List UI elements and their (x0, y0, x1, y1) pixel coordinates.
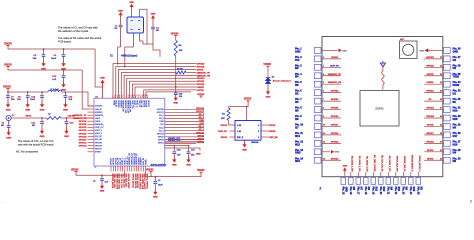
svg-text:GPIO35: GPIO35 (79, 124, 88, 126)
svg-text:GPIO23: GPIO23 (197, 64, 206, 66)
LED D1 (266, 78, 271, 84)
svg-text:(Power indicator): (Power indicator) (273, 79, 291, 82)
antenna connector J1 (6, 115, 11, 120)
svg-text:VDD3P3_CPU: VDD3P3_CPU (168, 140, 181, 142)
svg-text:GPIO2: GPIO2 (158, 136, 164, 138)
wire bottom rail left (76, 172, 125, 176)
svg-text:SENSOR_VP: SENSOR_VP (122, 100, 124, 112)
wire bus line 10 (144, 90, 196, 98)
module bottom pin 25 net wire (417, 172, 419, 177)
svg-text:GPIO34: GPIO34 (79, 120, 88, 123)
svg-text:GND: GND (335, 152, 340, 154)
svg-text:CHIP_PU: CHIP_PU (131, 100, 133, 109)
ground below C3 (154, 190, 156, 192)
wire bus line 8 (132, 84, 196, 98)
svg-text:GND: GND (153, 196, 158, 198)
svg-text:GND: GND (295, 50, 301, 53)
svg-text:CHIP_PU: CHIP_PU (330, 65, 340, 67)
module pin 25 net wire (424, 159, 443, 161)
svg-text:GND: GND (151, 14, 156, 16)
module inner chip box ESP32 (360, 91, 399, 127)
capacitor C13 (41, 92, 43, 95)
module bottom pin 21 box (386, 178, 391, 185)
capacitor C14 (64, 92, 66, 95)
svg-text:GPIO32: GPIO32 (79, 127, 88, 129)
svg-text:GPIO25: GPIO25 (79, 133, 88, 135)
svg-text:GPIO22: GPIO22 (197, 84, 206, 86)
svg-text:GPIO4: GPIO4 (158, 143, 164, 145)
module bottom pin 21 net wire (387, 172, 389, 177)
module pin 28 net wire (424, 134, 443, 136)
svg-text:The value of R4 varies with th: The value of R4 varies with the actual (58, 36, 102, 40)
ground below C9 (8, 130, 10, 132)
module pin 38 box (444, 48, 451, 54)
svg-text:I014: I014 (295, 135, 300, 138)
svg-text:GPIO26: GPIO26 (331, 116, 339, 118)
svg-text:GPIO15: GPIO15 (196, 132, 205, 134)
svg-text:VDD3P3: VDD3P3 (119, 100, 121, 107)
module pin 27 box (444, 140, 451, 146)
svg-text:GPIO27: GPIO27 (95, 148, 102, 150)
module pin 35 box (444, 73, 451, 79)
svg-text:NC: No component: NC: No component (16, 149, 38, 153)
svg-text:10K: 10K (179, 50, 183, 52)
svg-text:GPIO2: GPIO2 (197, 135, 204, 137)
svg-text:SCS_CMD_IO11: SCS_CMD_IO11 (118, 174, 120, 191)
wire crystal top-right pin routing (140, 9, 154, 44)
svg-text:GPIO18: GPIO18 (426, 116, 434, 118)
svg-text::..·: :..· (1, 200, 5, 204)
U2 left pin wires and labels (230, 130, 236, 132)
module pin 7 net wire (322, 100, 342, 102)
module pin 9 net wire (322, 117, 342, 119)
svg-text:I017: I017 (453, 135, 458, 138)
module pin 3 net wire (322, 66, 342, 68)
svg-text:6: 6 (258, 137, 259, 139)
svg-text:I34: I34 (295, 76, 299, 79)
svg-text:GPIO17: GPIO17 (426, 133, 434, 135)
svg-text:GPIO13_MTCK: GPIO13_MTCK (111, 174, 113, 189)
svg-text:VDD5V: VDD5V (4, 42, 12, 45)
module pin 33 net wire (424, 92, 443, 94)
ground below C6 (63, 61, 65, 63)
svg-text:VDD_SDIO_1V8: VDD_SDIO_1V8 (141, 174, 143, 190)
wire bus line 6 (127, 78, 196, 98)
svg-text:GND: GND (118, 10, 123, 12)
svg-text:2: 2 (114, 95, 115, 97)
power flag VDD33 rail3 (6, 87, 9, 89)
svg-text:I32: I32 (295, 93, 299, 96)
wire to right caps (165, 145, 189, 147)
svg-text:10uF: 10uF (30, 99, 36, 101)
svg-text:GPIO16: GPIO16 (196, 108, 205, 110)
svg-text:32: 32 (440, 99, 442, 101)
svg-text:GPIO0: GPIO0 (221, 125, 228, 127)
module pin 27 net wire (424, 142, 443, 144)
wire xtal net2 (125, 47, 134, 67)
module pin 37 net wire (424, 58, 443, 60)
module pin 36 net wire (424, 66, 443, 68)
svg-text:VDD33: VDD33 (4, 63, 12, 66)
module pin 25 box (444, 157, 451, 163)
svg-text:GND: GND (40, 109, 45, 111)
module bottom pin 19 box (371, 178, 376, 185)
svg-text:GPIO16: GPIO16 (157, 109, 164, 111)
svg-text:SENSOR_VN: SENSOR_VN (129, 100, 131, 112)
svg-text:Pin. 18: Pin. 18 (364, 187, 367, 195)
svg-text:GPIO0_BOOT0: GPIO0_BOOT0 (134, 174, 136, 190)
svg-text:GPIO32: GPIO32 (331, 91, 339, 93)
svg-text:SENSOR_: SENSOR_ (95, 115, 105, 117)
svg-text:Pin. 17: Pin. 17 (356, 187, 359, 195)
crystal X1 body (127, 17, 144, 33)
svg-text:SENSOR_VN: SENSOR_VN (328, 82, 341, 84)
svg-text:The values of C1 and C4 vary w: The values of C1 and C4 vary with (58, 26, 98, 30)
svg-text:GND: GND (173, 102, 178, 104)
svg-text:GPIO25: GPIO25 (142, 100, 144, 107)
inductor L2 (47, 117, 62, 120)
module pin 33 box (444, 90, 451, 96)
svg-text:SD_DATA_2_IO9: SD_DATA_2_IO9 (358, 156, 361, 173)
module pin 32 net wire (424, 100, 443, 102)
module bottom pin 19 net wire (372, 172, 374, 177)
svg-text:32K_XN: 32K_XN (140, 100, 142, 108)
wire rail1 (8, 48, 95, 49)
svg-text:CLK: CLK (200, 123, 205, 125)
module bottom pin 22 net wire (395, 172, 397, 177)
svg-text:I27: I27 (295, 126, 299, 129)
wire rail1 drop to U1 (95, 49, 102, 87)
svg-text:28: 28 (440, 133, 442, 135)
module pin 2 box (314, 56, 321, 62)
module bottom pin 16 box (349, 178, 354, 185)
svg-text:U0TXD: U0TXD (427, 74, 434, 76)
svg-text:GPIO22: GPIO22 (426, 65, 434, 67)
resistor R1 in series (176, 71, 186, 74)
module antenna feed trace (382, 67, 385, 90)
svg-text:2: 2 (470, 200, 472, 204)
module pin 34 net wire (424, 83, 443, 85)
svg-text:10uF: 10uF (51, 58, 57, 60)
svg-text:GPIO4: GPIO4 (427, 149, 434, 152)
svg-text:I019: I019 (453, 109, 458, 112)
svg-text:2: 2 (323, 57, 324, 59)
svg-text:VDD33: VDD33 (3, 85, 11, 88)
svg-text:29: 29 (440, 124, 442, 126)
module pin 7 box (314, 98, 321, 104)
svg-text:32K_XP: 32K_XP (95, 136, 103, 138)
svg-text:GPIO15_MTDO: GPIO15_MTDO (127, 174, 129, 189)
svg-text:40MHz(10ppm): 40MHz(10ppm) (121, 54, 137, 57)
module bottom pin 23 box (401, 178, 406, 185)
module pin 6 box (314, 90, 321, 96)
svg-text:GPIO5: GPIO5 (197, 69, 204, 71)
wire bus line 5 (124, 75, 196, 98)
svg-text:GPIO0: GPIO0 (427, 158, 434, 160)
capacitor C12 (66, 118, 68, 121)
module pin 13 net wire (322, 151, 331, 153)
svg-text:RXD0: RXD0 (453, 84, 460, 87)
svg-text:7: 7 (126, 95, 127, 97)
wire R2 to U2 (229, 120, 235, 125)
svg-text:GND: GND (172, 164, 177, 166)
svg-text:the selection of the crystal.: the selection of the crystal. (58, 29, 89, 33)
ground below D1 (267, 89, 269, 91)
svg-text:SD_2: SD_2 (199, 114, 205, 116)
module pin 8 net wire (322, 109, 342, 111)
svg-text:SD_3: SD_3 (159, 118, 164, 120)
capacitor C8 (27, 92, 29, 95)
module pin 12 box (314, 140, 321, 146)
svg-text:NC: NC (114, 28, 118, 30)
wire bus line 3 (118, 70, 196, 99)
module bottom pin 16 net wire (350, 172, 352, 177)
svg-text:GPIO26: GPIO26 (145, 100, 147, 107)
svg-text:VDD3P3: VDD3P3 (117, 100, 119, 107)
svg-text:U0RXD: U0RXD (426, 82, 434, 84)
svg-text:GPIO10_SD3_IO: GPIO10_SD3_IO (403, 156, 405, 172)
module pin 14 net wire (322, 159, 342, 161)
svg-text:GPIO25: GPIO25 (95, 142, 102, 144)
wire R4 to bus (175, 56, 177, 87)
svg-text:GPIO15: GPIO15 (157, 133, 164, 135)
svg-text:I23: I23 (453, 59, 457, 62)
svg-text:GND: GND (6, 137, 11, 139)
ground below C10 (63, 82, 65, 84)
svg-text:CMD: CMD (159, 121, 164, 123)
svg-text:SENSOR_VN: SENSOR_VN (197, 75, 211, 77)
svg-text:8: 8 (128, 95, 129, 97)
wire bus line 11 (146, 92, 191, 98)
module pin 1 net wire (322, 49, 338, 51)
svg-text:NC: NC (453, 101, 457, 104)
svg-text:GND: GND (186, 164, 191, 166)
module pin 31 net wire (424, 109, 443, 111)
capacitor C16 (173, 146, 175, 152)
module bottom pin 24 box (409, 178, 414, 185)
svg-text:6: 6 (124, 95, 125, 97)
svg-text:SD_3: SD_3 (199, 117, 205, 119)
svg-text:GPIO17: GPIO17 (196, 111, 205, 113)
module pin 30 box (444, 115, 451, 121)
svg-text:7: 7 (323, 99, 324, 101)
power flag VDD50 (6, 44, 9, 46)
U1 GND pin wire bottom right (165, 148, 200, 151)
module pin 30 net wire (424, 117, 443, 119)
svg-text:Pin. 15: Pin. 15 (341, 187, 344, 195)
svg-text:I016: I016 (453, 143, 458, 146)
svg-text:R1 0R: R1 0R (177, 69, 183, 71)
capacitor C9 below J1 (8, 121, 10, 125)
power flag VDD33 rail2 (6, 65, 9, 67)
svg-text:26: 26 (440, 150, 442, 152)
svg-text:5: 5 (258, 131, 259, 133)
svg-text:GPIO33: GPIO33 (79, 130, 88, 132)
svg-text:GPIO27: GPIO27 (331, 124, 339, 126)
svg-text:GND: GND (453, 50, 459, 53)
svg-text:11: 11 (323, 133, 325, 135)
svg-text:31: 31 (440, 108, 442, 110)
U1 bottom pin stubs and numbers (111, 166, 146, 172)
svg-text:I015: I015 (412, 187, 415, 192)
svg-text:GPIO19: GPIO19 (426, 108, 434, 110)
module pin 5 box (314, 81, 321, 87)
wire crystal bottom pins (133, 33, 135, 47)
module bottom pin 15 box (341, 178, 346, 185)
svg-text:VDD3P3: VDD3P3 (95, 112, 102, 114)
svg-text:U0TXD: U0TXD (197, 90, 205, 92)
module pin 31 box (444, 107, 451, 113)
svg-text:CHIP_PU: CHIP_PU (95, 127, 104, 129)
wire bottom rail right (146, 172, 202, 177)
module pin 9 box (314, 115, 321, 121)
svg-text:SD_0: SD_0 (199, 126, 205, 128)
svg-text:25: 25 (440, 158, 442, 160)
svg-text:SD_CMD_IO11SD: SD_CMD_IO11SD (373, 155, 375, 172)
svg-text:SD_DATA_3_I10: SD_DATA_3_I10 (366, 156, 369, 172)
svg-text:L1 2.0uH: L1 2.0uH (50, 89, 59, 91)
wire bus line 1 (113, 64, 196, 99)
module pin 35 net wire (424, 75, 443, 77)
U1 left net labels (73, 115, 87, 148)
capacitor C1 (120, 17, 122, 25)
svg-text:GPIO0: GPIO0 (158, 140, 164, 142)
svg-text:NC: NC (156, 30, 160, 32)
module pin 3 box (314, 64, 321, 70)
ground below C13 (41, 102, 43, 104)
svg-text:Pin. 20: Pin. 20 (379, 187, 382, 195)
ground below C7 (7, 102, 9, 104)
svg-text:GPIO12: GPIO12 (79, 146, 88, 148)
svg-text:I010: I010 (382, 187, 385, 192)
svg-text:5: 5 (323, 82, 324, 84)
svg-text:CMD: CMD (199, 120, 204, 122)
svg-text:GND: GND (419, 50, 424, 52)
resistor R2 (227, 108, 230, 120)
svg-text:I018: I018 (453, 118, 458, 121)
svg-text:10: 10 (323, 124, 325, 126)
svg-text:GPIO2: GPIO2 (221, 137, 228, 139)
module bottom pin 25 box (416, 178, 421, 185)
svg-text:GPIO9_SD2_IOS: GPIO9_SD2_IOS (396, 156, 398, 172)
capacitor C3 (154, 176, 156, 178)
module bottom pin 18 box (364, 178, 369, 185)
svg-text:GPIO18: GPIO18 (197, 67, 206, 69)
wire rail3 left (8, 91, 48, 92)
svg-text:16: 16 (146, 95, 148, 97)
svg-text:GPIO15_MTDO_S: GPIO15_MTDO_S (411, 155, 413, 172)
capacitor C6 (63, 49, 65, 54)
svg-text:GND: GND (242, 150, 247, 152)
svg-text:8: 8 (323, 108, 324, 110)
module pin 37 box (444, 56, 451, 62)
svg-text:VDD33: VDD33 (331, 57, 339, 59)
capacitor C4 (152, 20, 154, 26)
op-amp U1 ESP32 chip body (94, 98, 165, 166)
wire xtal net4 (153, 47, 160, 57)
module bottom pin 24 net wire (410, 172, 412, 177)
U1 left pin names (95, 106, 105, 154)
svg-text:SD_DATA_1_IO8: SD_DATA_1_IO8 (351, 156, 354, 173)
module pin 38 net wire (428, 49, 443, 51)
svg-text:ESP_E: ESP_E (237, 137, 244, 139)
svg-text:VDDA: VDDA (144, 159, 147, 165)
ground below C16 (173, 157, 175, 159)
svg-text:36: 36 (440, 65, 442, 67)
svg-text:SD_CLK_IO6_SD: SD_CLK_IO6_SD (381, 155, 383, 172)
resistor R4 (174, 40, 177, 56)
ground below C15 (175, 95, 177, 98)
module pin 5 net wire (322, 83, 342, 85)
svg-text:GND: GND (129, 2, 134, 4)
svg-text:I22: I22 (453, 67, 457, 70)
svg-text:3: 3 (323, 65, 324, 67)
svg-text:CAPN: CAPN (95, 120, 101, 123)
wire VDD33 to R2 (229, 103, 249, 108)
svg-text:vary with the actual PCB board: vary with the actual PCB board. (18, 142, 55, 146)
svg-text:Pin. 24: Pin. 24 (409, 187, 412, 195)
module pin 32 box (444, 98, 451, 104)
svg-text:I26: I26 (295, 118, 299, 121)
module pin 11 box (314, 132, 321, 138)
module pin 12 net wire (322, 142, 342, 144)
U1 bottom pin names (111, 152, 148, 164)
module pin 26 box (444, 149, 451, 155)
capacitor C15 on EN net (175, 87, 177, 93)
svg-text:GPIO19: GPIO19 (197, 78, 206, 80)
ground below C17 (188, 157, 190, 159)
module pin 11 net wire (322, 134, 342, 136)
module pin 29 box (444, 124, 451, 130)
svg-text:GPIO21: GPIO21 (426, 91, 434, 93)
svg-text:GPIO17: GPIO17 (157, 112, 164, 114)
wire LED to ground (267, 84, 269, 90)
ground below C8 (27, 102, 29, 104)
svg-text:35: 35 (440, 74, 442, 76)
svg-text:SCK_CLK_IO6: SCK_CLK_IO6 (120, 174, 122, 189)
svg-text:GPIO16: GPIO16 (426, 141, 434, 143)
svg-text:I21: I21 (453, 93, 457, 96)
svg-text:GND: GND (25, 109, 30, 111)
svg-text:Pin. 16: Pin. 16 (349, 187, 352, 195)
svg-text:3: 3 (117, 95, 118, 97)
module bottom pin 17 net wire (357, 172, 359, 177)
svg-text:SENSOR_VP: SENSOR_VP (197, 72, 211, 74)
svg-text:SD_1: SD_1 (159, 130, 164, 132)
module bottom pin 17 box (356, 178, 361, 185)
svg-text:GPIO12: GPIO12 (331, 141, 339, 143)
svg-text:37: 37 (440, 57, 442, 59)
svg-text:27: 27 (440, 141, 442, 143)
module bottom pin 22 box (394, 178, 399, 185)
module bottom pin 23 net wire (402, 172, 404, 177)
svg-text:UMH3N: UMH3N (251, 142, 259, 144)
svg-text:VDD33: VDD33 (171, 33, 179, 36)
U1 left pin stubs (88, 106, 95, 152)
module pin 10 box (314, 124, 321, 130)
module pin 34 box (444, 81, 451, 87)
svg-text:LNA_IN: LNA_IN (95, 108, 102, 111)
wire xtal net3 (140, 41, 148, 44)
wire xtal net1 (118, 47, 121, 64)
module pin 6 net wire (322, 92, 342, 94)
svg-text:I33: I33 (295, 101, 299, 104)
svg-text:6: 6 (323, 91, 324, 93)
module antenna symbol (380, 63, 385, 67)
svg-text:VDD3P3: VDD3P3 (95, 106, 102, 108)
svg-text:GPIO27: GPIO27 (79, 139, 88, 141)
transistor U2 body (235, 121, 261, 141)
